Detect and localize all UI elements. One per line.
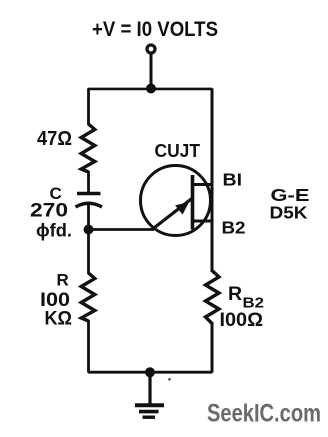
transistor base bar xyxy=(191,175,195,230)
svg-text:47Ω: 47Ω xyxy=(37,128,72,150)
resistor 47Ω xyxy=(81,124,95,172)
transistor B2 lead xyxy=(193,220,214,223)
svg-text:270: 270 xyxy=(30,200,68,222)
transistor emitter arrowhead xyxy=(175,202,189,215)
node emitter junction xyxy=(84,225,94,235)
capacitor C top plate xyxy=(77,192,101,195)
wire emitter horizontal xyxy=(89,228,155,231)
svg-text:CUJT: CUJT xyxy=(155,140,201,161)
transistor emitter line xyxy=(152,198,193,230)
wire ground stem xyxy=(148,372,151,404)
wire bottom rail xyxy=(87,371,213,374)
svg-text:I00Ω: I00Ω xyxy=(220,309,264,331)
svg-text:ϕfd.: ϕfd. xyxy=(36,221,72,241)
svg-text:B2: B2 xyxy=(222,218,246,238)
node top junction xyxy=(146,84,156,94)
transistor Q1 CUJT circle xyxy=(141,166,211,236)
wire terminal to top rail xyxy=(150,54,153,89)
wire left rail lower xyxy=(87,230,90,275)
wire top rail xyxy=(87,88,214,91)
svg-text:+V = I0 VOLTS: +V = I0 VOLTS xyxy=(92,18,218,41)
terminal +V xyxy=(147,45,155,53)
wire capacitor to emitter node xyxy=(87,204,90,230)
transistor B1 lead xyxy=(193,183,214,186)
wire right rail lower xyxy=(211,323,214,372)
node ground junction xyxy=(145,367,155,377)
svg-text:KΩ: KΩ xyxy=(45,308,73,330)
resistor RB2 xyxy=(206,271,220,324)
wire right rail upper xyxy=(211,89,214,273)
capacitor C curved plate xyxy=(76,203,103,207)
resistor R 100K xyxy=(81,273,95,321)
node scan speck xyxy=(168,378,171,381)
svg-text:D5K: D5K xyxy=(270,203,308,223)
svg-text:R: R xyxy=(228,283,242,305)
svg-text:SeekIC.com: SeekIC.com xyxy=(207,400,321,428)
wire R to bottom rail xyxy=(87,320,90,372)
wire left rail upper xyxy=(87,89,90,126)
svg-text:BI: BI xyxy=(223,170,243,190)
svg-text:R: R xyxy=(57,271,69,290)
wire resistor to capacitor xyxy=(87,171,90,194)
ground xyxy=(135,405,164,417)
